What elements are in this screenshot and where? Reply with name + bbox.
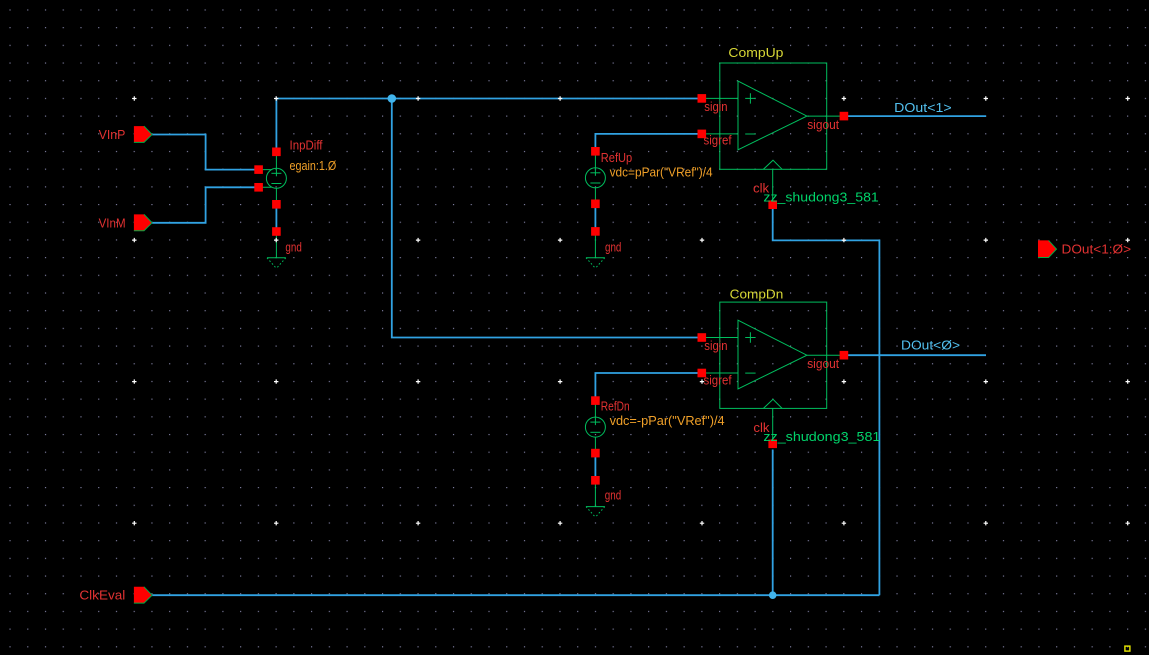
wire — [276, 99, 698, 149]
svg-text:VInM: VInM — [99, 215, 126, 230]
wire — [848, 354, 986, 356]
svg-text:sigref: sigref — [704, 133, 732, 148]
svg-text:gnd: gnd — [285, 240, 301, 255]
terminal (InpDiff ctrl+) — [254, 165, 263, 174]
wire — [848, 115, 986, 117]
input pin VInP — [134, 126, 152, 142]
comparator CompDn — [698, 302, 849, 448]
junction — [769, 591, 777, 599]
wire — [275, 204, 277, 231]
terminal (RefDn top) — [591, 396, 600, 405]
svg-text:zz_shudong3_581: zz_shudong3_581 — [763, 429, 880, 444]
svg-text:CompUp: CompUp — [728, 45, 783, 60]
vcvs InpDiff — [259, 152, 287, 205]
input pin VInM — [134, 214, 152, 230]
svg-text:InpDiff: InpDiff — [290, 138, 323, 153]
svg-text:RefUp: RefUp — [601, 150, 632, 165]
junction — [388, 94, 397, 103]
wire — [594, 453, 596, 480]
terminal (RefDn bottom) — [591, 449, 600, 458]
input pin ClkEval — [134, 587, 152, 603]
vdc source RefUp — [585, 151, 605, 204]
svg-text:CompDn: CompDn — [730, 287, 784, 302]
output pin DOut<1:0> — [1038, 240, 1057, 257]
svg-text:sigout: sigout — [807, 356, 839, 371]
wire — [152, 135, 259, 170]
grid major crosses — [132, 96, 1130, 525]
terminal (RefUp top) — [591, 147, 600, 156]
ground (InpDiff) — [267, 236, 286, 269]
svg-text:sigin: sigin — [704, 338, 727, 353]
wire — [772, 450, 774, 596]
svg-text:RefDn: RefDn — [601, 399, 630, 414]
svg-text:egain:1.Ø: egain:1.Ø — [290, 158, 337, 173]
wire — [595, 134, 698, 149]
svg-text:DOut<Ø>: DOut<Ø> — [901, 337, 960, 352]
wire — [152, 187, 259, 223]
terminal (InpDiff out+) — [272, 148, 281, 157]
svg-text:zz_shudong3_581: zz_shudong3_581 — [763, 189, 878, 204]
svg-text:DOut<1>: DOut<1> — [894, 100, 951, 115]
svg-text:vdc=-pPar("VRef")/4: vdc=-pPar("VRef")/4 — [610, 413, 725, 428]
svg-text:VInP: VInP — [99, 127, 126, 142]
svg-text:DOut<1:Ø>: DOut<1:Ø> — [1062, 242, 1132, 257]
wire — [594, 204, 596, 232]
terminal (RefUp bottom) — [591, 200, 600, 209]
wire — [595, 373, 698, 401]
terminal (InpDiff ctrl-) — [254, 183, 263, 192]
svg-text:sigref: sigref — [704, 372, 732, 387]
terminal (RefUp gnd) — [591, 227, 600, 236]
svg-text:ClkEval: ClkEval — [79, 588, 125, 603]
comparator CompUp — [698, 63, 849, 209]
terminal (InpDiff out-) — [272, 200, 281, 209]
svg-text:sigout: sigout — [807, 117, 839, 132]
svg-text:sigin: sigin — [704, 99, 727, 114]
ground (RefDn) — [586, 484, 605, 517]
wire — [392, 99, 698, 338]
terminal (RefDn gnd) — [591, 476, 600, 485]
wire — [773, 209, 880, 596]
vdc source RefDn — [585, 401, 605, 454]
svg-text:gnd: gnd — [605, 487, 621, 502]
svg-text:vdc=pPar("VRef")/4: vdc=pPar("VRef")/4 — [610, 164, 713, 179]
terminal (InpDiff gnd) — [272, 227, 281, 236]
ground (RefUp) — [586, 235, 605, 268]
wire — [152, 594, 879, 596]
svg-text:gnd: gnd — [605, 240, 621, 255]
origin marker — [1125, 646, 1130, 651]
